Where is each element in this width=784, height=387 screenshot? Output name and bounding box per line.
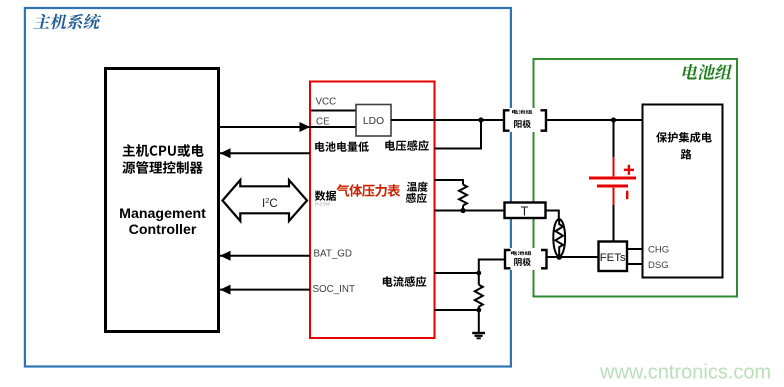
junction dot voltage sense bbox=[478, 117, 483, 122]
svg-text:Management: Management bbox=[119, 206, 206, 222]
wire LDO output to pack+ connector bbox=[391, 119, 503, 121]
label 电流感应 bbox=[383, 276, 427, 287]
host system box (blue frame) bbox=[25, 8, 511, 367]
battery cell BT1 (red) bbox=[589, 157, 636, 205]
shunt resistor R-sense bbox=[475, 285, 483, 307]
arrowhead BAT_GD bbox=[220, 251, 231, 261]
wire BAT_GD to controller bbox=[220, 255, 310, 257]
battery pack title 电池组 bbox=[682, 64, 732, 80]
wire SOC_INT to controller bbox=[220, 289, 310, 291]
anode tiny label 电池组 bbox=[512, 110, 532, 114]
battery pack box (green frame) bbox=[534, 59, 738, 297]
wire battery top (black) bbox=[613, 120, 615, 157]
wire FETs CHG bbox=[627, 248, 643, 250]
wire current sense top bbox=[435, 272, 479, 274]
svg-text:CHG: CHG bbox=[648, 244, 669, 255]
svg-text:CE: CE bbox=[316, 117, 330, 128]
cathode label 阴极 bbox=[514, 258, 531, 266]
wire temp sense to T bbox=[435, 210, 505, 212]
junction dot temp bbox=[460, 208, 465, 213]
svg-text:I2C: I2C bbox=[262, 196, 278, 210]
wire cathode bus to FETs bbox=[547, 256, 599, 258]
protection IC block bbox=[643, 105, 723, 278]
svg-text:VCC: VCC bbox=[316, 97, 337, 108]
wire voltage sense bbox=[435, 120, 482, 149]
svg-text:T: T bbox=[521, 204, 529, 218]
protection IC label 保护集成电 bbox=[656, 132, 712, 143]
ground symbol bbox=[472, 332, 485, 334]
wire cathode to shunt bbox=[479, 260, 504, 285]
controller label 主机CPU或电 bbox=[123, 144, 204, 157]
LDO regulator block bbox=[356, 105, 391, 137]
wire current sense bottom bbox=[435, 309, 479, 311]
svg-text:Controller: Controller bbox=[129, 222, 197, 238]
wire T box right to thermistor bbox=[546, 211, 559, 220]
host system title 主机系统 bbox=[34, 14, 102, 30]
wire shunt to ground bbox=[478, 306, 480, 333]
controller label 源管理控制器 bbox=[122, 161, 202, 174]
svg-text:BAT_GD: BAT_GD bbox=[314, 249, 352, 260]
svg-text:LDO: LDO bbox=[363, 116, 384, 127]
wire VCC into LDO bbox=[311, 110, 356, 112]
gas gauge IC box (red frame) bbox=[310, 82, 435, 339]
wire battery-low to controller bbox=[220, 152, 310, 154]
junction dot shunt bottom bbox=[476, 308, 481, 313]
arrowhead SOC_INT bbox=[220, 285, 231, 295]
svg-text:FETs: FETs bbox=[600, 252, 626, 264]
pin label 数据 bbox=[315, 191, 336, 201]
resistor R-bias (thermistor pull-up) bbox=[459, 185, 467, 206]
gauge title 气体压力表 bbox=[336, 184, 400, 197]
faded pin label 时钟 bbox=[315, 202, 330, 206]
junction dot shunt top bbox=[476, 271, 481, 276]
temperature sensor box T bbox=[505, 203, 546, 219]
junction dot thermistor bottom bbox=[556, 254, 562, 260]
cathode tiny label 电池组 bbox=[511, 251, 531, 255]
pack anode connector bbox=[505, 108, 545, 132]
protection IC label 路 bbox=[681, 149, 692, 160]
svg-text:www.cntronics.com: www.cntronics.com bbox=[599, 361, 771, 383]
wire CE from controller to gauge bbox=[219, 126, 356, 128]
management controller block bbox=[106, 69, 219, 332]
wire pack+ connector to protection IC bbox=[547, 119, 642, 121]
arrowhead battery-low (into controller) bbox=[220, 148, 231, 158]
wire temp bias bbox=[435, 180, 464, 185]
label 温度感应 line1 bbox=[407, 182, 428, 192]
wire FETs DSG bbox=[627, 263, 643, 265]
label 电压感应 bbox=[385, 140, 429, 151]
wire battery bottom to FETs bbox=[613, 205, 615, 241]
svg-text:SOC_INT: SOC_INT bbox=[313, 284, 355, 295]
thermistor RT1 (ellipse) bbox=[553, 219, 565, 256]
arrowhead CE (into gauge) bbox=[300, 122, 311, 132]
pin label 电池电量低 bbox=[315, 141, 369, 151]
svg-text:DSG: DSG bbox=[648, 260, 669, 271]
junction dot battery top bbox=[611, 117, 616, 122]
pack cathode connector bbox=[506, 248, 545, 270]
I2C double block arrow bbox=[223, 180, 308, 221]
anode label 阳极 bbox=[514, 120, 531, 128]
FETs block Q1 bbox=[599, 242, 628, 272]
label 温度感应 line2 bbox=[406, 193, 427, 203]
